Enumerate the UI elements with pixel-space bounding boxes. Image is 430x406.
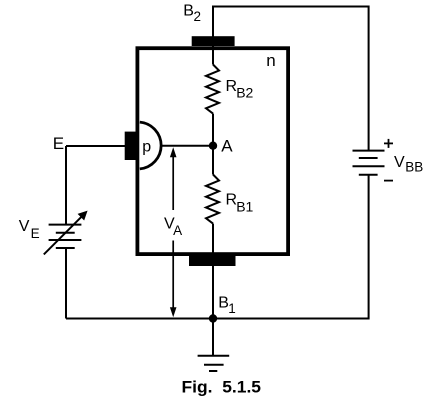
svg-text:V: V [394,154,405,171]
svg-text:B2: B2 [236,85,253,101]
svg-text:1: 1 [228,301,236,316]
svg-text:n: n [266,51,275,70]
svg-text:2: 2 [194,9,202,24]
svg-text:BB: BB [405,160,423,175]
svg-text:A: A [221,137,233,156]
svg-text:E: E [31,226,40,241]
svg-text:E: E [53,134,64,153]
svg-text:p: p [142,139,151,156]
svg-text:A: A [173,223,182,238]
svg-text:Fig. 5.1.5: Fig. 5.1.5 [182,377,262,396]
svg-text:V: V [19,218,30,235]
svg-text:B: B [183,3,194,20]
svg-text:B1: B1 [236,199,253,215]
svg-text:B: B [218,295,229,312]
